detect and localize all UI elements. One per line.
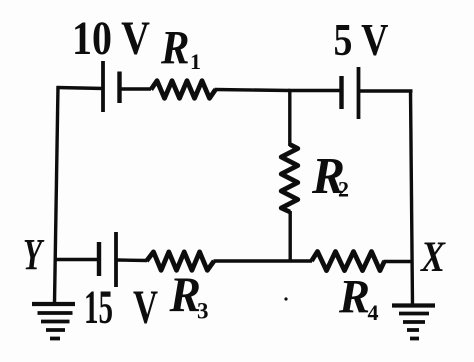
wire battery B3 to resistor R3 <box>116 258 147 262</box>
wire junction to battery B2 <box>288 89 342 92</box>
wire battery B2 to top right corner <box>359 89 413 92</box>
wire resistor R4 to bottom right corner <box>384 260 414 263</box>
svg-text:2: 2 <box>338 177 349 202</box>
wire middle vertical upper <box>288 89 291 146</box>
wire middle vertical lower <box>289 211 292 262</box>
resistor R4 zigzag <box>312 252 385 271</box>
svg-text:V: V <box>133 281 158 334</box>
svg-text:10 V: 10 V <box>72 12 150 65</box>
svg-text:Y: Y <box>23 230 45 279</box>
wire bottom left segment <box>55 258 100 261</box>
wire battery B1 to resistor R1 <box>120 87 152 90</box>
battery B3 (15 V) short plate <box>97 242 101 276</box>
battery B2 (5 V) long plate <box>357 67 361 119</box>
battery B1 (10 V) long plate <box>101 61 105 112</box>
wire top left segment <box>57 88 105 89</box>
svg-text:4: 4 <box>368 300 379 325</box>
svg-text:15: 15 <box>84 281 113 334</box>
ground symbol right <box>392 306 435 339</box>
wire resistor R1 to node junction top <box>215 90 291 91</box>
battery B3 (15 V) long plate <box>114 232 118 287</box>
ground symbol left <box>32 304 75 339</box>
resistor R3 zigzag <box>147 252 215 270</box>
battery B2 (5 V) short plate <box>339 76 343 109</box>
svg-text:R: R <box>160 22 189 75</box>
svg-text:3: 3 <box>197 299 209 324</box>
resistor R2 zigzag <box>281 145 298 213</box>
wire resistor R3 to bottom junction <box>214 259 313 262</box>
svg-text:X: X <box>419 234 446 281</box>
resistor R1 zigzag <box>151 81 216 99</box>
stray dot mark <box>284 297 287 300</box>
svg-text:1: 1 <box>190 49 201 74</box>
svg-text:R: R <box>338 271 370 324</box>
svg-text:5 V: 5 V <box>334 14 389 65</box>
wire right vertical (X branch) <box>411 90 413 306</box>
battery B1 (10 V) short plate <box>117 72 121 104</box>
wire left vertical (Y branch) <box>55 86 59 303</box>
